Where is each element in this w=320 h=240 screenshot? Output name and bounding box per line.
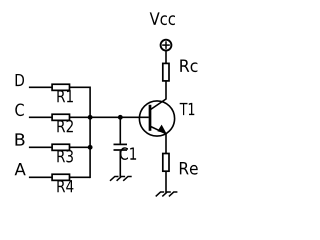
transistor T1 — [139, 81, 174, 154]
wire D row — [29, 86, 90, 88]
resistor Re — [163, 154, 169, 172]
node B label — [16, 133, 25, 145]
resistor R3 — [52, 144, 69, 150]
ground (emitter) — [156, 192, 178, 196]
wire B row — [29, 146, 90, 148]
junction capacitor tap — [118, 115, 123, 120]
capacitor C1 — [114, 143, 128, 145]
junction bus/B row — [88, 145, 93, 150]
wire Vcc to Rc — [165, 51, 167, 63]
Vcc label — [150, 12, 175, 25]
wire base (bus to transistor) — [90, 116, 149, 118]
wire capacitor top — [119, 117, 121, 143]
resistor R4 — [52, 174, 69, 180]
node A label — [15, 163, 26, 175]
Vcc supply terminal (+ in circle) — [161, 40, 172, 51]
junction bus/C row — [88, 115, 93, 120]
ground (C1) — [110, 176, 132, 180]
node D label — [16, 74, 24, 86]
resistor R2 — [52, 114, 69, 120]
wire capacitor bottom — [119, 151, 121, 177]
wire A row — [29, 176, 90, 178]
node C label — [15, 104, 23, 117]
wire C row — [29, 116, 90, 118]
wire Re to ground — [165, 171, 167, 192]
resistor Rc — [163, 63, 169, 81]
resistor R1 — [52, 84, 69, 90]
wire summing bus — [89, 87, 91, 177]
label T1 — [180, 103, 195, 115]
